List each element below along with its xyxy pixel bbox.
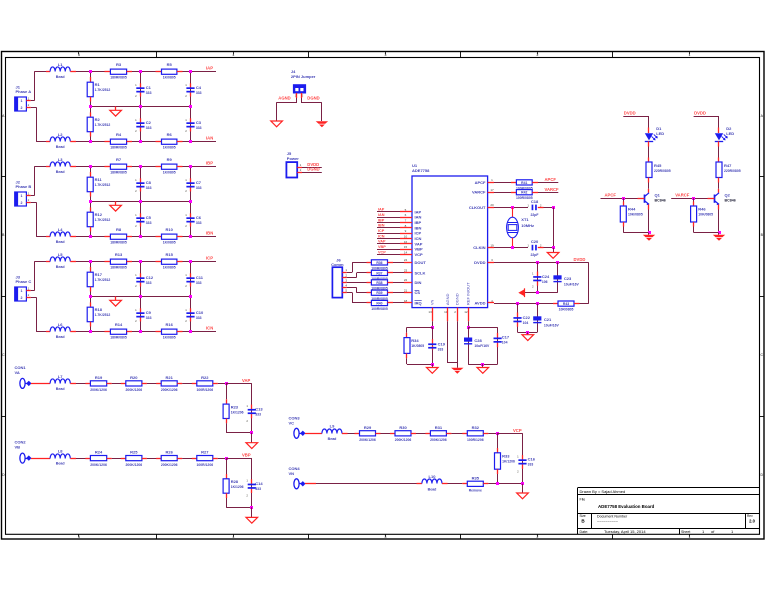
svg-text:R7: R7 <box>116 157 122 162</box>
svg-text:3: 3 <box>385 53 387 57</box>
svg-text:DGND: DGND <box>307 96 319 101</box>
svg-text:10uF/16V: 10uF/16V <box>564 282 580 286</box>
svg-text:1.7K/2512: 1.7K/2512 <box>95 183 111 187</box>
svg-text:200K/1206: 200K/1206 <box>161 388 178 392</box>
svg-text:R4: R4 <box>116 132 122 137</box>
svg-text:Phase A: Phase A <box>16 89 32 94</box>
svg-text:R14: R14 <box>115 322 123 327</box>
svg-text:180R/0805: 180R/0805 <box>110 241 127 245</box>
svg-text:Tuesday, April 15, 2014: Tuesday, April 15, 2014 <box>604 529 646 534</box>
svg-text:C18: C18 <box>531 199 539 204</box>
svg-text:L1: L1 <box>58 62 63 67</box>
svg-text:333: 333 <box>528 463 534 467</box>
svg-text:2: 2 <box>21 106 23 110</box>
svg-text:200K/1206: 200K/1206 <box>126 463 143 467</box>
svg-text:1.7K/2512: 1.7K/2512 <box>95 123 111 127</box>
svg-text:IAN: IAN <box>206 135 213 140</box>
svg-text:1K/1206: 1K/1206 <box>502 459 515 463</box>
svg-text:CLKIN: CLKIN <box>473 245 485 250</box>
svg-text:1.7K/2512: 1.7K/2512 <box>95 313 111 317</box>
svg-text:2: 2 <box>537 535 539 539</box>
svg-text:R46: R46 <box>698 206 706 211</box>
svg-text:R24: R24 <box>95 450 103 455</box>
svg-text:R17: R17 <box>95 272 103 277</box>
svg-text:L9: L9 <box>330 424 335 429</box>
svg-text:R33: R33 <box>502 453 510 458</box>
svg-text:IAP: IAP <box>206 65 213 70</box>
svg-text:VBP: VBP <box>415 247 424 252</box>
svg-text:LED: LED <box>726 131 734 136</box>
svg-text:REF IN/OUT: REF IN/OUT <box>465 282 470 305</box>
svg-text:R3: R3 <box>116 62 122 67</box>
svg-text:VN: VN <box>430 299 435 305</box>
svg-text:VCP: VCP <box>378 250 386 254</box>
svg-text:VARCF: VARCF <box>545 187 560 192</box>
svg-text:333: 333 <box>146 126 152 130</box>
svg-text:C14: C14 <box>255 481 263 486</box>
svg-text:VCP: VCP <box>415 252 424 257</box>
svg-text:~~~~~~~~~~: ~~~~~~~~~~ <box>597 520 618 524</box>
svg-text:200K/1206: 200K/1206 <box>126 388 143 392</box>
svg-text:C16: C16 <box>528 457 536 462</box>
svg-text:333: 333 <box>438 348 444 352</box>
svg-text:DVDD: DVDD <box>474 260 485 265</box>
svg-text:C1: C1 <box>146 85 152 90</box>
svg-text:APCF: APCF <box>605 193 617 198</box>
svg-text:200K/1206: 200K/1206 <box>161 463 178 467</box>
svg-text:R44: R44 <box>628 206 636 211</box>
svg-text:C12: C12 <box>146 275 154 280</box>
svg-text:Drawn By = Sajad Ahmed: Drawn By = Sajad Ahmed <box>580 489 626 494</box>
svg-text:IAP: IAP <box>378 208 385 212</box>
svg-text:R41: R41 <box>521 181 527 185</box>
svg-text:220R/0805: 220R/0805 <box>724 169 741 173</box>
svg-text:Bead: Bead <box>56 170 65 174</box>
svg-text:333: 333 <box>146 316 152 320</box>
svg-text:C17: C17 <box>502 334 510 339</box>
svg-text:16: 16 <box>404 240 408 244</box>
svg-text:C19: C19 <box>438 342 446 347</box>
svg-text:180R/0805: 180R/0805 <box>110 76 127 80</box>
svg-text:CS: CS <box>415 290 421 295</box>
svg-text:1.7K/2512: 1.7K/2512 <box>95 88 111 92</box>
svg-text:2: 2 <box>21 201 23 205</box>
svg-text:200K/1206: 200K/1206 <box>90 388 107 392</box>
svg-text:Bead: Bead <box>56 240 65 244</box>
svg-text:ICP: ICP <box>415 231 422 236</box>
svg-text:C8: C8 <box>146 180 152 185</box>
svg-text:VAP: VAP <box>378 240 386 244</box>
svg-text:15: 15 <box>404 245 408 249</box>
svg-text:333: 333 <box>255 412 261 416</box>
svg-text:Bead: Bead <box>56 145 65 149</box>
svg-text:C6: C6 <box>196 215 202 220</box>
svg-text:200K/1206: 200K/1206 <box>395 438 412 442</box>
svg-text:IBP: IBP <box>415 220 422 225</box>
svg-text:333: 333 <box>196 316 202 320</box>
svg-text:333: 333 <box>196 91 202 95</box>
svg-text:L7: L7 <box>58 374 63 379</box>
svg-text:Sheet: Sheet <box>681 530 690 534</box>
svg-text:SCLK: SCLK <box>415 270 426 275</box>
svg-text:Phase C: Phase C <box>16 279 32 284</box>
svg-text:R47: R47 <box>724 163 732 168</box>
svg-text:333: 333 <box>196 126 202 130</box>
svg-text:C22: C22 <box>523 315 531 320</box>
svg-text:R6: R6 <box>167 132 173 137</box>
svg-text:10uF/16V: 10uF/16V <box>474 344 490 348</box>
svg-text:10uF/16V: 10uF/16V <box>544 323 560 327</box>
svg-text:VARCF: VARCF <box>675 193 690 198</box>
svg-text:VAP: VAP <box>242 378 251 383</box>
svg-text:R5: R5 <box>167 62 173 67</box>
svg-text:VB: VB <box>15 445 21 450</box>
svg-text:L3: L3 <box>58 157 63 162</box>
svg-text:R36: R36 <box>376 261 382 265</box>
svg-text:VBP: VBP <box>242 453 251 458</box>
svg-text:1K/0805: 1K/0805 <box>411 344 424 348</box>
svg-text:BC846: BC846 <box>725 198 736 202</box>
svg-text:100R/1206: 100R/1206 <box>197 463 214 467</box>
svg-text:333: 333 <box>196 221 202 225</box>
svg-text:L5: L5 <box>58 252 63 257</box>
svg-text:C11: C11 <box>196 275 204 280</box>
svg-text:R10: R10 <box>166 227 174 232</box>
svg-text:Date:: Date: <box>580 530 589 534</box>
svg-text:Power: Power <box>287 156 299 161</box>
svg-text:R43: R43 <box>563 302 569 306</box>
svg-text:Size: Size <box>580 514 586 518</box>
svg-text:VN: VN <box>289 471 295 476</box>
svg-text:333: 333 <box>146 91 152 95</box>
svg-text:C24: C24 <box>542 274 550 279</box>
svg-text:L4: L4 <box>58 227 63 232</box>
svg-text:12: 12 <box>464 310 468 314</box>
svg-text:10K/0805: 10K/0805 <box>628 212 643 216</box>
svg-text:C28: C28 <box>474 338 482 343</box>
svg-text:R19: R19 <box>95 375 103 380</box>
svg-text:ICP: ICP <box>378 229 385 233</box>
svg-text:Bead: Bead <box>428 487 437 491</box>
svg-text:C7: C7 <box>196 180 202 185</box>
svg-text:VCP: VCP <box>513 428 522 433</box>
svg-text:1K/0805: 1K/0805 <box>163 266 176 270</box>
svg-text:IBP: IBP <box>378 218 385 222</box>
svg-text:R25: R25 <box>130 450 138 455</box>
svg-text:1: 1 <box>689 535 691 539</box>
svg-text:AGND: AGND <box>445 293 450 305</box>
svg-text:1.7K/2512: 1.7K/2512 <box>95 278 111 282</box>
svg-text:C9: C9 <box>146 310 152 315</box>
svg-text:R35: R35 <box>472 475 480 480</box>
svg-text:220R/0805: 220R/0805 <box>654 169 671 173</box>
svg-text:1: 1 <box>21 289 23 293</box>
svg-text:4: 4 <box>233 535 235 539</box>
svg-text:ICN: ICN <box>206 325 213 330</box>
svg-text:100R/1206: 100R/1206 <box>467 438 484 442</box>
svg-text:IBN: IBN <box>206 230 213 235</box>
svg-text:C21: C21 <box>544 317 552 322</box>
svg-text:VC: VC <box>289 421 295 426</box>
svg-text:File: File <box>580 497 586 501</box>
svg-text:R20: R20 <box>130 375 138 380</box>
svg-text:Phase B: Phase B <box>16 184 32 189</box>
svg-text:200K/1206: 200K/1206 <box>359 438 376 442</box>
svg-text:10R/0805: 10R/0805 <box>559 308 574 312</box>
svg-text:R28: R28 <box>231 479 239 484</box>
svg-text:1: 1 <box>21 194 23 198</box>
svg-text:R18: R18 <box>95 307 103 312</box>
svg-text:DVDD: DVDD <box>624 111 636 116</box>
svg-text:1K/0805: 1K/0805 <box>163 241 176 245</box>
svg-text:C10: C10 <box>196 310 204 315</box>
svg-text:VAP: VAP <box>415 241 423 246</box>
svg-text:AGND: AGND <box>278 96 290 101</box>
svg-text:L6: L6 <box>58 322 63 327</box>
svg-text:100R/1206: 100R/1206 <box>197 388 214 392</box>
svg-text:ADE7758: ADE7758 <box>412 168 430 173</box>
svg-text:L10: L10 <box>429 474 437 479</box>
svg-text:R34: R34 <box>411 338 419 343</box>
svg-text:333: 333 <box>146 281 152 285</box>
svg-text:14: 14 <box>404 251 408 255</box>
svg-text:4: 4 <box>233 53 235 57</box>
svg-text:2PIN Jumper: 2PIN Jumper <box>291 74 316 79</box>
svg-text:CLKOUT: CLKOUT <box>469 205 486 210</box>
svg-text:DVDD: DVDD <box>694 111 706 116</box>
svg-text:1K/0805: 1K/0805 <box>163 171 176 175</box>
svg-text:R45: R45 <box>654 163 662 168</box>
svg-text:DVDD: DVDD <box>574 257 586 262</box>
svg-text:Bead: Bead <box>328 437 337 441</box>
svg-text:C2: C2 <box>146 120 152 125</box>
svg-text:22pF: 22pF <box>531 213 539 217</box>
svg-text:R31: R31 <box>435 425 443 430</box>
svg-text:R30: R30 <box>399 425 407 430</box>
svg-text:104: 104 <box>523 321 529 325</box>
svg-text:104: 104 <box>502 340 508 344</box>
svg-text:3: 3 <box>385 535 387 539</box>
svg-text:180R/0805: 180R/0805 <box>110 171 127 175</box>
svg-text:R9: R9 <box>167 157 173 162</box>
svg-text:IBP: IBP <box>206 160 213 165</box>
svg-text:333: 333 <box>196 281 202 285</box>
svg-text:5: 5 <box>78 535 80 539</box>
svg-text:Remove: Remove <box>469 489 482 493</box>
svg-text:R15: R15 <box>166 252 174 257</box>
svg-text:VBP: VBP <box>378 245 386 249</box>
svg-text:R38: R38 <box>376 281 382 285</box>
svg-text:R2: R2 <box>95 117 101 122</box>
svg-text:R37: R37 <box>376 271 382 275</box>
svg-text:R21: R21 <box>166 375 174 380</box>
svg-text:24: 24 <box>404 258 408 262</box>
svg-text:R32: R32 <box>472 425 480 430</box>
svg-text:1K/0805: 1K/0805 <box>163 146 176 150</box>
svg-text:10MHz: 10MHz <box>521 223 534 228</box>
svg-text:200K/1206: 200K/1206 <box>430 438 447 442</box>
svg-text:17: 17 <box>490 188 494 192</box>
svg-text:R23: R23 <box>231 405 239 410</box>
svg-text:10K/0805: 10K/0805 <box>698 212 713 216</box>
svg-text:ICP: ICP <box>206 255 213 260</box>
svg-text:20: 20 <box>490 203 494 207</box>
svg-text:Q2: Q2 <box>725 192 731 197</box>
svg-text:1K/1206: 1K/1206 <box>231 411 244 415</box>
svg-text:Bead: Bead <box>56 335 65 339</box>
svg-text:C3: C3 <box>196 120 202 125</box>
svg-text:R16: R16 <box>166 322 174 327</box>
svg-text:180R/0805: 180R/0805 <box>110 146 127 150</box>
svg-text:AVDD: AVDD <box>474 301 485 306</box>
svg-text:10: 10 <box>404 235 408 239</box>
svg-text:L2: L2 <box>58 132 63 137</box>
svg-text:IBN: IBN <box>378 224 385 228</box>
svg-text:333: 333 <box>146 186 152 190</box>
svg-text:200K/1206: 200K/1206 <box>90 463 107 467</box>
svg-text:ICN: ICN <box>415 236 422 241</box>
svg-text:2.0: 2.0 <box>749 519 755 524</box>
svg-text:DGND: DGND <box>307 167 319 172</box>
svg-text:ICN: ICN <box>378 234 385 238</box>
svg-text:R40: R40 <box>376 301 382 305</box>
svg-text:333: 333 <box>196 186 202 190</box>
svg-text:2: 2 <box>21 296 23 300</box>
svg-text:IAN: IAN <box>415 215 422 220</box>
svg-text:DIN: DIN <box>415 280 422 285</box>
svg-text:Rev: Rev <box>747 514 753 518</box>
svg-text:180R/0805: 180R/0805 <box>110 336 127 340</box>
svg-text:19: 19 <box>490 243 494 247</box>
svg-text:APCF: APCF <box>545 177 557 182</box>
svg-text:2: 2 <box>537 53 539 57</box>
svg-text:C5: C5 <box>146 215 152 220</box>
svg-text:IBN: IBN <box>415 225 422 230</box>
svg-text:C23: C23 <box>564 276 572 281</box>
svg-text:106: 106 <box>542 280 548 284</box>
svg-text:Bead: Bead <box>56 462 65 466</box>
svg-text:R11: R11 <box>95 177 103 182</box>
svg-text:1: 1 <box>21 99 23 103</box>
svg-text:L8: L8 <box>58 449 63 454</box>
svg-text:IRQ: IRQ <box>415 301 422 306</box>
svg-text:Q1: Q1 <box>655 192 661 197</box>
svg-text:1.7K/2512: 1.7K/2512 <box>95 218 111 222</box>
svg-text:XT1: XT1 <box>521 217 529 222</box>
svg-text:5: 5 <box>78 53 80 57</box>
svg-text:R12: R12 <box>95 212 103 217</box>
svg-text:BC846: BC846 <box>655 198 666 202</box>
svg-text:DGND: DGND <box>455 293 460 305</box>
svg-text:IAP: IAP <box>415 209 422 214</box>
svg-text:VARCF: VARCF <box>472 190 486 195</box>
svg-text:22: 22 <box>404 278 408 282</box>
svg-text:VA: VA <box>15 370 20 375</box>
svg-text:IAN: IAN <box>378 213 385 217</box>
svg-text:Document Number: Document Number <box>597 514 628 518</box>
svg-text:Bead: Bead <box>56 75 65 79</box>
svg-text:1: 1 <box>689 53 691 57</box>
svg-text:R29: R29 <box>364 425 372 430</box>
svg-text:1K/1206: 1K/1206 <box>231 485 244 489</box>
svg-text:APCF: APCF <box>475 180 486 185</box>
svg-text:C4: C4 <box>196 85 202 90</box>
svg-text:R39: R39 <box>376 291 382 295</box>
svg-text:333: 333 <box>255 487 261 491</box>
svg-text:100R/0805: 100R/0805 <box>371 307 388 311</box>
svg-text:ADE7758 Evaluation Board: ADE7758 Evaluation Board <box>598 504 655 509</box>
svg-text:R27: R27 <box>201 450 209 455</box>
svg-text:LED: LED <box>656 131 664 136</box>
svg-text:22pF: 22pF <box>531 253 539 257</box>
svg-text:1K/0805: 1K/0805 <box>163 76 176 80</box>
svg-text:R42: R42 <box>521 191 527 195</box>
svg-text:R8: R8 <box>116 227 122 232</box>
svg-text:333: 333 <box>146 221 152 225</box>
svg-text:C20: C20 <box>531 239 539 244</box>
svg-text:Bead: Bead <box>56 265 65 269</box>
svg-text:C13: C13 <box>255 406 263 411</box>
svg-text:180R/0805: 180R/0805 <box>110 266 127 270</box>
svg-text:1K/0805: 1K/0805 <box>163 336 176 340</box>
svg-text:R22: R22 <box>201 375 209 380</box>
svg-text:DOUT: DOUT <box>415 260 427 265</box>
svg-text:Bead: Bead <box>56 387 65 391</box>
svg-text:R13: R13 <box>115 252 123 257</box>
svg-text:R1: R1 <box>95 82 101 87</box>
svg-text:R26: R26 <box>166 450 174 455</box>
svg-text:13: 13 <box>428 310 432 314</box>
